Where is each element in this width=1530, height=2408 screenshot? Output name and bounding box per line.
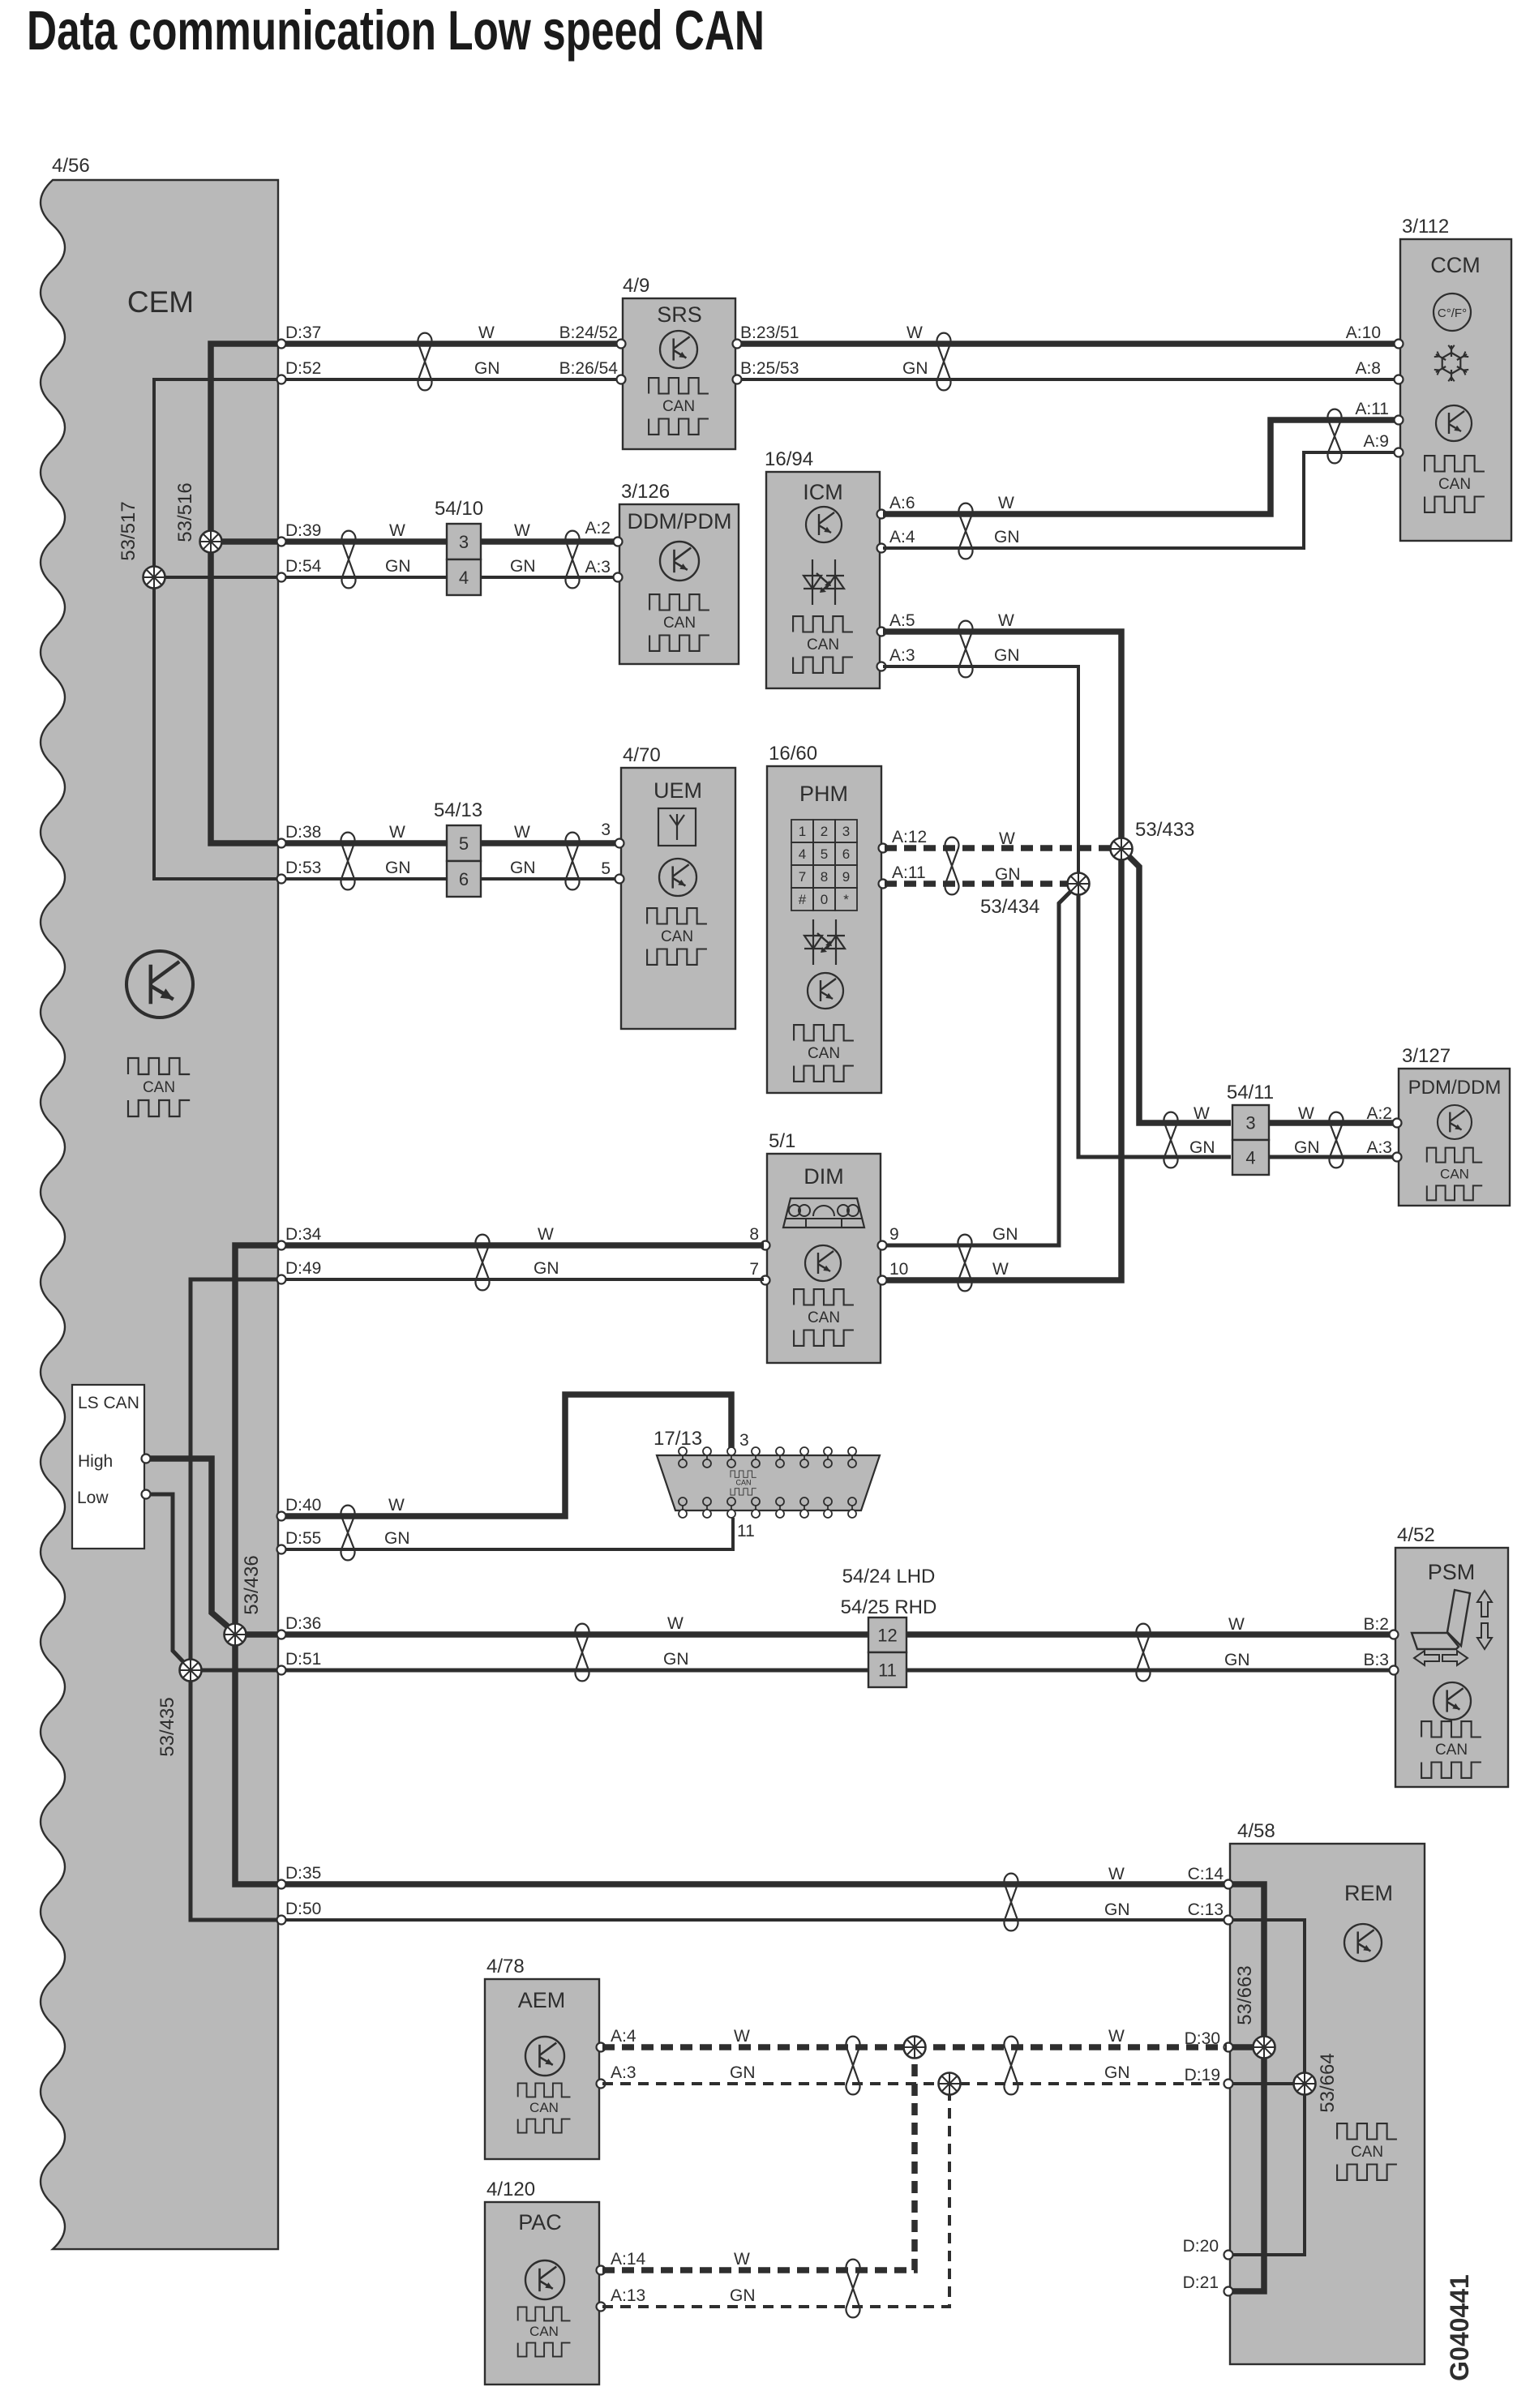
pin REM D:20: [1224, 2251, 1233, 2260]
wire LS CAN Low to 53/435: [144, 1494, 190, 1669]
twisted pair symbol: [418, 333, 432, 391]
pin ICM A:6: [877, 510, 886, 519]
svg-text:A:12: A:12: [892, 828, 927, 846]
svg-text:CAN: CAN: [807, 636, 839, 653]
pin CEM D:53: [277, 875, 286, 884]
svg-text:5: 5: [821, 846, 828, 862]
wire D:51 GN to PSM B:3: [278, 1669, 1394, 1673]
pin SRS B:23/51: [733, 340, 742, 349]
pin PDM/DDM A:3: [1393, 1153, 1402, 1162]
AEM CAN symbol: [518, 2083, 571, 2132]
svg-text:W: W: [1228, 1615, 1245, 1634]
wire REM internal D:19 stub: [1232, 2082, 1305, 2085]
wire D:38 W to UEM pin 3: [278, 840, 619, 846]
pin AEM A:3: [597, 2080, 606, 2089]
svg-text:CAN: CAN: [735, 1479, 751, 1487]
svg-text:W: W: [1108, 2027, 1125, 2046]
svg-text:W: W: [998, 611, 1014, 630]
svg-text:LS CAN: LS CAN: [78, 1394, 139, 1412]
svg-text:9: 9: [889, 1225, 899, 1244]
twisted pair symbol: [1328, 409, 1342, 464]
svg-text:3/112: 3/112: [1402, 216, 1449, 238]
svg-text:D:19: D:19: [1185, 2066, 1220, 2085]
PDM/DDM control-unit icon: [1438, 1105, 1472, 1139]
connector 54/24 LHD 54/25 RHD: [868, 1617, 906, 1687]
wire LS CAN High to 53/436: [144, 1459, 235, 1633]
pin CEM D:39: [277, 538, 286, 546]
junction 53/433: [1111, 838, 1133, 860]
svg-text:4/52: 4/52: [1397, 1524, 1435, 1546]
svg-text:4/78: 4/78: [486, 1956, 525, 1977]
svg-text:*: *: [843, 892, 849, 907]
svg-text:CAN: CAN: [1351, 2144, 1383, 2161]
wire AEM A:3 GN dashed to REM D:19: [602, 2082, 1227, 2085]
svg-text:W: W: [389, 521, 405, 540]
svg-text:CAN: CAN: [143, 1079, 175, 1096]
pin DIM 8: [761, 1241, 770, 1250]
pin LS CAN Low: [142, 1490, 151, 1499]
wire CEM internal W vertical D:34-53/436-D:35: [235, 1245, 278, 1884]
control module PHM 16/60 box: [767, 766, 881, 1093]
svg-text:A:13: A:13: [611, 2286, 645, 2305]
svg-text:4/58: 4/58: [1237, 1820, 1275, 1842]
wire AEM A:4 W dashed to REM D:30: [602, 2044, 1227, 2050]
pin PSM B:2: [1390, 1630, 1399, 1639]
twisted pair symbol: [1137, 1624, 1151, 1682]
twisted pair symbol: [958, 1235, 972, 1292]
svg-text:3: 3: [1245, 1113, 1255, 1133]
twisted pair symbol: [959, 503, 973, 559]
pin LS CAN High: [142, 1455, 151, 1463]
twisted pair symbol: [846, 2260, 860, 2318]
svg-text:A:14: A:14: [611, 2250, 646, 2269]
svg-text:GN: GN: [1189, 1138, 1215, 1157]
pin PHM A:11: [879, 880, 888, 889]
svg-text:W: W: [538, 1225, 554, 1244]
svg-text:B:24/52: B:24/52: [559, 323, 618, 342]
svg-text:UEM: UEM: [654, 778, 702, 803]
pin PHM A:12: [879, 844, 888, 853]
svg-text:GN: GN: [663, 1650, 689, 1669]
svg-text:W: W: [992, 1260, 1009, 1279]
wire CEM internal D:36 stub: [235, 1631, 278, 1638]
twisted pair symbol: [1005, 1874, 1018, 1931]
svg-text:PDM/DDM: PDM/DDM: [1408, 1077, 1502, 1099]
SRS control-unit icon: [660, 331, 697, 368]
svg-text:A:3: A:3: [1366, 1138, 1392, 1157]
svg-text:A:3: A:3: [585, 558, 611, 576]
svg-text:W: W: [514, 521, 530, 540]
svg-text:A:5: A:5: [889, 611, 915, 630]
wire 54/11 to PDM/DDM A:3: [1269, 1155, 1397, 1159]
svg-text:W: W: [1194, 1104, 1210, 1123]
svg-text:3: 3: [459, 532, 469, 552]
svg-text:W: W: [906, 323, 923, 342]
connector 54/11: [1232, 1105, 1269, 1175]
pin CCM A:8: [1395, 375, 1404, 384]
svg-text:53/436: 53/436: [241, 1555, 263, 1614]
svg-text:High: High: [78, 1452, 113, 1471]
svg-text:CAN: CAN: [663, 615, 696, 632]
svg-text:GN: GN: [992, 1225, 1018, 1244]
svg-text:GN: GN: [730, 2063, 756, 2082]
svg-text:4/9: 4/9: [623, 275, 649, 297]
pin PDM/DDM A:2: [1393, 1119, 1402, 1128]
wire D:53 GN to UEM pin 5: [278, 877, 619, 881]
wire CEM internal W vertical D:37-D:39-D:38: [211, 344, 278, 843]
wire ICM A:4 GN to CCM A:9: [883, 452, 1400, 548]
wire D:40 W to 17/13 pin 3: [278, 1395, 731, 1516]
svg-text:7: 7: [749, 1260, 759, 1279]
svg-text:W: W: [999, 829, 1015, 848]
junction 53/517: [144, 567, 165, 589]
pin PSM B:3: [1390, 1666, 1399, 1675]
svg-text:GN: GN: [994, 528, 1020, 546]
svg-text:D:52: D:52: [285, 359, 321, 378]
wire ICM A:6 W to CCM A:11: [883, 420, 1400, 514]
svg-text:GN: GN: [510, 557, 536, 576]
svg-text:W: W: [1108, 1865, 1125, 1883]
svg-text:GN: GN: [1224, 1651, 1250, 1669]
control module DDM/PDM 3/126 box: [619, 504, 739, 664]
twisted pair symbol: [476, 1235, 490, 1291]
svg-text:11: 11: [878, 1660, 897, 1681]
pin AEM A:4: [597, 2043, 606, 2052]
svg-text:3/126: 3/126: [621, 481, 670, 503]
control module UEM 4/70 box: [621, 768, 735, 1029]
svg-text:D:54: D:54: [285, 557, 322, 576]
svg-text:B:23/51: B:23/51: [740, 323, 799, 342]
svg-text:GN: GN: [1294, 1138, 1320, 1157]
junction 53/663: [1254, 2037, 1275, 2059]
wire D:52 GN to SRS B:26/54: [278, 378, 621, 381]
svg-text:1: 1: [799, 824, 806, 839]
svg-text:C°/F°: C°/F°: [1438, 306, 1467, 320]
wire CEM internal GN vertical D:52-D:54-D:53: [154, 379, 278, 879]
svg-text:A:3: A:3: [611, 2063, 636, 2082]
twisted pair symbol: [342, 531, 356, 589]
wire REM internal C:13 to D:20: [1230, 1920, 1305, 2255]
wire ICM A:3 GN to junction 53/434: [883, 666, 1078, 884]
pin SRS B:24/52: [617, 340, 626, 349]
CCM snowflake icon: [1434, 345, 1468, 382]
svg-text:Low: Low: [77, 1489, 109, 1507]
svg-text:B:26/54: B:26/54: [559, 359, 619, 378]
connector 54/13: [447, 825, 481, 897]
control module PDM/DDM 3/127 box: [1399, 1069, 1510, 1206]
ICM control-unit icon: [806, 507, 842, 542]
control module DIM 5/1 box: [767, 1154, 881, 1363]
ICM dimmer icon: [804, 559, 844, 605]
svg-text:A:4: A:4: [611, 2027, 636, 2046]
svg-text:W: W: [478, 323, 495, 342]
svg-text:CAN: CAN: [662, 398, 695, 415]
svg-text:REM: REM: [1344, 1881, 1393, 1905]
svg-text:GN: GN: [384, 1529, 410, 1548]
pin DDM/PDM A:3: [614, 573, 623, 582]
svg-text:B:25/53: B:25/53: [740, 359, 799, 378]
twisted pair symbol: [1164, 1112, 1178, 1168]
pin REM D:30: [1224, 2043, 1233, 2052]
wire 53/433 down to DIM pin 10: [885, 849, 1121, 1280]
svg-text:ICM: ICM: [803, 480, 843, 504]
twisted pair symbol: [1005, 2037, 1018, 2095]
svg-text:Data communication Low speed C: Data communication Low speed CAN: [27, 0, 765, 62]
wire CEM internal GN vertical D:49-53/435-D:50: [191, 1279, 278, 1920]
svg-text:D:38: D:38: [285, 823, 321, 842]
svg-text:A:11: A:11: [892, 863, 926, 882]
pin UEM 5: [615, 875, 624, 884]
wire SRS B:25/53 GN to CCM A:8: [737, 378, 1400, 381]
svg-text:4/120: 4/120: [486, 2179, 535, 2200]
junction 53/434: [1068, 873, 1090, 895]
control module CCM 3/112 box: [1400, 239, 1511, 541]
svg-text:2: 2: [821, 824, 828, 839]
pin REM D:21: [1224, 2287, 1233, 2296]
pin ICM A:3: [877, 662, 886, 671]
wire PHM A:12 W dashed to 53/433: [885, 845, 1121, 851]
svg-text:A:11: A:11: [1355, 400, 1389, 418]
AEM control-unit icon: [525, 2037, 564, 2076]
control module CEM 4/56 box: [41, 180, 278, 2249]
pin DIM 9: [878, 1241, 887, 1250]
DIM instrument cluster icon: [783, 1198, 864, 1228]
LS CAN node box: [72, 1385, 144, 1549]
svg-text:CAN: CAN: [808, 1309, 840, 1326]
svg-text:4: 4: [1245, 1148, 1255, 1168]
twisted pair symbol: [959, 621, 973, 678]
pin CEM D:40: [277, 1512, 286, 1521]
pin ICM A:4: [877, 544, 886, 553]
pin CEM D:36: [277, 1630, 286, 1639]
svg-text:CAN: CAN: [808, 1045, 840, 1062]
svg-text:3: 3: [739, 1431, 749, 1450]
pin CCM A:10: [1395, 340, 1404, 349]
pin CEM D:35: [277, 1880, 286, 1889]
pin CEM D:49: [277, 1275, 286, 1284]
svg-text:4/70: 4/70: [623, 744, 661, 766]
DDM/PDM control-unit icon: [660, 542, 699, 581]
junction 53/664: [1294, 2073, 1316, 2095]
svg-text:11: 11: [737, 1522, 755, 1540]
svg-text:GN: GN: [385, 557, 411, 576]
junction AEM/PAC GN splice: [939, 2073, 961, 2095]
svg-text:7: 7: [799, 869, 806, 885]
svg-text:W: W: [998, 494, 1014, 512]
svg-text:GN: GN: [902, 359, 928, 378]
DIM CAN symbol: [794, 1289, 854, 1346]
svg-text:A:2: A:2: [585, 519, 611, 538]
wire D:36 W to PSM B:2: [278, 1631, 1394, 1638]
DDM/PDM CAN symbol: [649, 594, 709, 651]
svg-text:W: W: [734, 2250, 750, 2269]
svg-text:8: 8: [821, 869, 828, 885]
svg-text:A:4: A:4: [889, 528, 915, 546]
junction AEM/PAC W splice: [904, 2037, 926, 2059]
svg-text:3: 3: [842, 824, 850, 839]
svg-text:W: W: [514, 823, 530, 842]
junction 53/435: [180, 1660, 202, 1682]
PHM control-unit icon: [808, 973, 843, 1009]
svg-text:W: W: [388, 1496, 405, 1515]
svg-text:W: W: [1298, 1104, 1314, 1123]
svg-text:D:36: D:36: [285, 1614, 321, 1633]
svg-text:PHM: PHM: [799, 782, 848, 806]
CCM control-unit icon: [1436, 405, 1472, 441]
wire D:55 GN to 17/13 pin 11: [278, 1518, 733, 1549]
wire D:54 GN to DDM/PDM A:3: [278, 576, 618, 579]
svg-text:53/664: 53/664: [1317, 2053, 1339, 2112]
PSM seat icon: [1412, 1590, 1492, 1665]
wire PAC A:13 GN dashed to splice: [602, 2095, 949, 2307]
svg-text:4: 4: [799, 846, 806, 862]
REM CAN symbol: [1337, 2123, 1397, 2180]
svg-text:CEM: CEM: [127, 285, 194, 319]
CEM control-unit icon: [126, 951, 193, 1018]
twisted pair symbol: [566, 833, 580, 890]
pin REM C:13: [1224, 1916, 1233, 1925]
svg-text:A:10: A:10: [1346, 323, 1381, 342]
svg-text:54/24 LHD: 54/24 LHD: [842, 1566, 936, 1587]
wire CEM internal D:39 stub: [211, 538, 278, 545]
PAC CAN symbol: [518, 2307, 571, 2356]
svg-text:CAN: CAN: [529, 2324, 559, 2339]
svg-text:54/10: 54/10: [435, 498, 483, 520]
pin CEM D:54: [277, 573, 286, 582]
svg-text:W: W: [667, 1614, 684, 1633]
svg-text:C:13: C:13: [1188, 1900, 1224, 1919]
svg-text:#: #: [799, 892, 807, 907]
twisted pair symbol: [945, 838, 959, 895]
svg-text:D:49: D:49: [285, 1259, 321, 1278]
wire D:34 W to DIM pin 8: [278, 1242, 764, 1249]
wire REM internal C:14 to D:21: [1230, 1884, 1264, 2291]
svg-text:A:8: A:8: [1355, 359, 1381, 378]
pin CEM D:37: [277, 340, 286, 349]
wire SRS B:23/51 W to CCM A:10: [737, 341, 1400, 347]
pin PAC A:13: [597, 2303, 606, 2312]
svg-text:W: W: [734, 2027, 750, 2046]
pin SRS B:26/54: [617, 375, 626, 384]
svg-text:D:20: D:20: [1183, 2237, 1219, 2256]
twisted pair symbol: [1330, 1112, 1344, 1168]
ICM CAN symbol: [793, 616, 853, 673]
svg-text:16/94: 16/94: [765, 448, 813, 470]
svg-text:CAN: CAN: [1435, 1742, 1468, 1759]
wire PHM A:11 GN dashed to 53/434: [885, 881, 1078, 887]
UEM control-unit icon: [659, 859, 696, 896]
svg-text:6: 6: [842, 846, 850, 862]
svg-text:CAN: CAN: [529, 2100, 559, 2115]
PHM CAN symbol: [794, 1025, 854, 1082]
control module SRS 4/9 box: [623, 298, 735, 449]
wire D:49 GN to DIM pin 7: [278, 1278, 764, 1281]
svg-text:4: 4: [459, 568, 469, 588]
svg-text:53/435: 53/435: [156, 1697, 178, 1756]
pin DDM/PDM A:2: [614, 538, 623, 546]
svg-text:G040441: G040441: [1445, 2274, 1474, 2381]
svg-text:17/13: 17/13: [654, 1428, 702, 1450]
wire CEM internal D:51 stub: [191, 1669, 278, 1673]
svg-text:CAN: CAN: [1440, 1166, 1469, 1181]
svg-text:SRS: SRS: [657, 302, 702, 327]
svg-text:3/127: 3/127: [1402, 1045, 1451, 1067]
pin PAC A:14: [597, 2266, 606, 2275]
svg-text:53/434: 53/434: [980, 896, 1039, 918]
control module PSM 4/52 box: [1395, 1548, 1508, 1787]
svg-text:C:14: C:14: [1188, 1865, 1224, 1883]
svg-text:B:3: B:3: [1363, 1651, 1389, 1669]
control module AEM 4/78 box: [485, 1979, 599, 2159]
svg-text:53/517: 53/517: [118, 501, 139, 560]
pin CEM D:55: [277, 1545, 286, 1554]
svg-text:D:50: D:50: [285, 1900, 321, 1918]
wire D:37 W to SRS B:24/52: [278, 341, 621, 347]
svg-text:W: W: [389, 823, 405, 842]
wire REM internal D:30 stub: [1232, 2044, 1264, 2050]
pin CEM D:38: [277, 839, 286, 848]
pin CEM D:51: [277, 1666, 286, 1675]
svg-text:9: 9: [842, 869, 850, 885]
svg-text:CAN: CAN: [661, 928, 693, 945]
svg-text:AEM: AEM: [518, 1988, 566, 2012]
svg-text:D:55: D:55: [285, 1529, 321, 1548]
svg-text:CCM: CCM: [1430, 253, 1481, 277]
svg-text:GN: GN: [1104, 2063, 1130, 2082]
svg-text:GN: GN: [385, 859, 411, 877]
wire D:39 W to DDM/PDM A:2: [278, 538, 618, 545]
svg-text:GN: GN: [534, 1259, 559, 1278]
svg-text:10: 10: [889, 1260, 908, 1279]
svg-text:A:2: A:2: [1366, 1104, 1392, 1123]
UEM antenna icon: [658, 808, 696, 846]
svg-text:D:21: D:21: [1183, 2273, 1219, 2292]
junction 53/436: [225, 1624, 246, 1646]
svg-text:PSM: PSM: [1428, 1560, 1476, 1584]
wire CEM internal D:54 stub: [154, 576, 278, 579]
svg-text:DDM/PDM: DDM/PDM: [628, 509, 732, 533]
CCM CAN symbol: [1425, 456, 1485, 512]
svg-text:16/60: 16/60: [769, 743, 817, 765]
svg-text:B:2: B:2: [1363, 1615, 1389, 1634]
wire PAC A:14 W dashed to splice: [602, 2059, 915, 2270]
svg-text:GN: GN: [994, 646, 1020, 665]
svg-text:53/663: 53/663: [1234, 1965, 1256, 2025]
wire D:50 GN to REM C:13: [278, 1918, 1228, 1922]
connector 17/13 body: [657, 1447, 880, 1518]
REM control-unit icon: [1344, 1924, 1382, 1961]
svg-text:GN: GN: [1104, 1900, 1130, 1919]
svg-text:A:3: A:3: [889, 646, 915, 665]
svg-text:5: 5: [601, 859, 611, 878]
svg-text:54/25 RHD: 54/25 RHD: [841, 1596, 937, 1618]
svg-text:54/11: 54/11: [1227, 1082, 1274, 1103]
svg-text:GN: GN: [995, 865, 1021, 884]
pin ICM A:5: [877, 628, 886, 636]
pin CEM D:52: [277, 375, 286, 384]
twisted pair symbol: [566, 531, 580, 589]
PAC control-unit icon: [525, 2260, 564, 2299]
pin CEM D:50: [277, 1916, 286, 1925]
pin REM C:14: [1224, 1880, 1233, 1889]
17/13 mini CAN symbol: [731, 1471, 756, 1495]
svg-text:D:53: D:53: [285, 859, 321, 877]
svg-text:A:9: A:9: [1363, 432, 1389, 451]
twisted pair symbol: [846, 2037, 860, 2095]
wire 53/434 branch to DIM pin 9: [885, 884, 1078, 1245]
svg-text:3: 3: [601, 821, 611, 839]
SRS CAN symbol: [649, 378, 709, 435]
